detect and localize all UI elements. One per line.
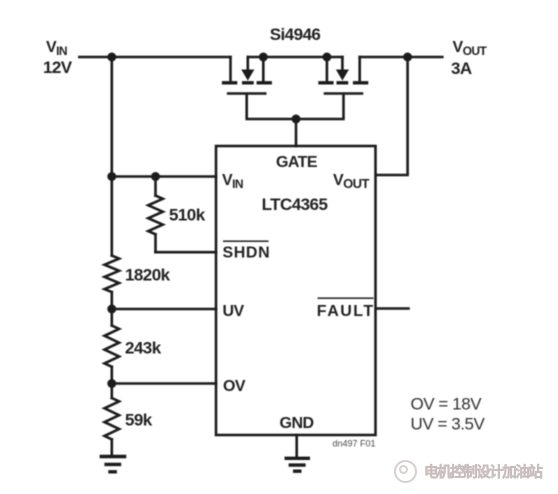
node OV junction dot [107, 379, 116, 388]
gate wire [296, 95, 344, 120]
FAULT overline [318, 297, 374, 299]
channel bars [353, 81, 368, 84]
source stub [262, 57, 265, 81]
svg-text:GND: GND [280, 415, 314, 432]
wire top rail VOUT segment [360, 56, 443, 59]
svg-text:VOUT: VOUT [453, 39, 488, 58]
svg-text:GATE: GATE [276, 154, 318, 171]
wire GND pin lead [295, 435, 298, 457]
svg-text:3A: 3A [451, 59, 472, 78]
node right source dot [322, 53, 331, 62]
wire gate drop to IC [295, 119, 298, 146]
body diode triangle [241, 70, 254, 81]
body diode lead [247, 57, 250, 70]
wire top rail common source segment [248, 56, 343, 59]
resistor R2 1820k [105, 177, 120, 310]
gate plate [324, 92, 364, 95]
node VOUT junction dot [403, 53, 412, 62]
wire OV pin [112, 382, 216, 385]
body diode lead [341, 57, 344, 70]
resistor R3 243k [105, 309, 120, 384]
wire UV pin [112, 308, 216, 311]
svg-text:LTC4365: LTC4365 [262, 195, 328, 214]
resistor R1 510k [148, 177, 163, 253]
IC U1 LTC4365 body [216, 146, 376, 435]
svg-text:59k: 59k [125, 411, 153, 430]
svg-text:dn497 F01: dn497 F01 [332, 439, 375, 449]
svg-text:OV: OV [223, 378, 246, 395]
ground GND2 center [285, 458, 311, 471]
wire top rail VIN segment [79, 56, 230, 59]
ground GND1 left [100, 457, 127, 472]
SHDN overline [223, 240, 269, 242]
wire VIN pin [112, 175, 216, 178]
gate wire [247, 95, 296, 120]
svg-text:Si4946: Si4946 [270, 25, 321, 44]
node VIN junction dot [107, 53, 116, 62]
svg-text:12V: 12V [43, 58, 73, 77]
svg-text:510k: 510k [169, 206, 206, 225]
node UV junction dot [107, 305, 116, 314]
svg-text:OV = 18V: OV = 18V [411, 395, 483, 414]
wire left rail vertical from VIN node down to VIN pin node [111, 57, 114, 177]
svg-text:VOUT: VOUT [333, 172, 370, 191]
resistor R4 59k [105, 384, 120, 456]
channel bars [222, 81, 237, 84]
wire FAULT stub [376, 307, 409, 310]
transistor Q1 left PMOS of Si4946 [222, 57, 296, 119]
node left source dot [259, 53, 268, 62]
node common gate dot [292, 115, 301, 124]
node 510k top dot [151, 172, 160, 181]
svg-text:UV: UV [223, 303, 245, 320]
source stub [326, 57, 329, 81]
svg-text:1820k: 1820k [125, 266, 171, 285]
gate plate [227, 92, 267, 95]
node VIN pin junction dot [107, 172, 116, 181]
wire SHDN pin [156, 251, 217, 254]
drain stub [358, 57, 361, 80]
body diode triangle [336, 70, 349, 81]
wire VOUT down to VOUT pin [376, 57, 408, 175]
svg-text:FAULT: FAULT [317, 303, 375, 320]
svg-text:243k: 243k [125, 339, 162, 358]
svg-text:SHDN: SHDN [223, 245, 271, 262]
svg-text:VIN: VIN [46, 39, 67, 58]
transistor Q2 right PMOS of Si4946 [296, 57, 368, 119]
svg-text:UV = 3.5V: UV = 3.5V [411, 415, 486, 434]
svg-text:VIN: VIN [222, 172, 243, 191]
watermark logo 电机控制设计加油站 (faint embossed) [394, 460, 417, 483]
drain stub [229, 57, 232, 80]
